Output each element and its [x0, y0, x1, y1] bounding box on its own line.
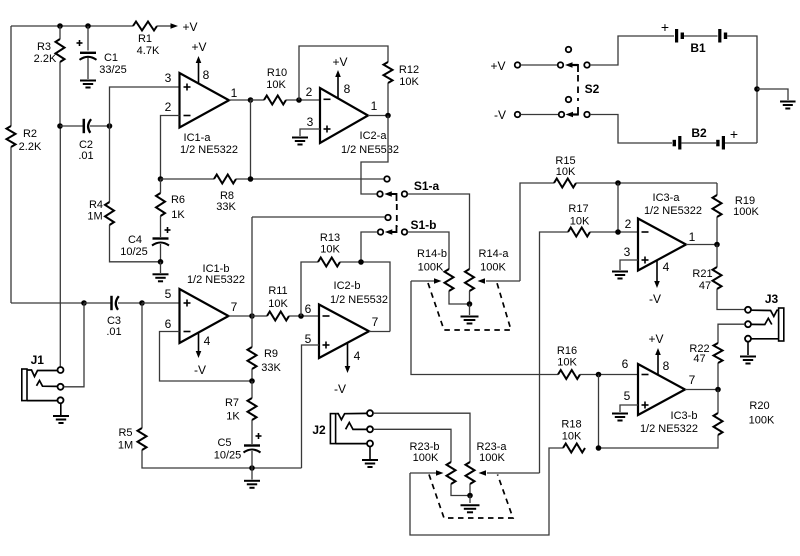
wire C5 ground stub	[251, 468, 253, 480]
potentiometer R23-a	[466, 462, 475, 484]
battery B2 cell 2	[716, 140, 719, 147]
junction C2 left	[57, 123, 63, 129]
svg-text:S1-a: S1-a	[414, 179, 440, 193]
battery B1 cell 2	[718, 29, 721, 43]
resistor R2	[7, 126, 16, 147]
resistor R22	[714, 343, 723, 363]
wire R3 top stub	[59, 26, 61, 39]
junction C5 ground node	[249, 465, 255, 471]
junction R17 out	[615, 229, 621, 235]
junction C3 right	[139, 300, 145, 306]
wire R19 top	[716, 183, 718, 195]
wire C2 right lead	[90, 125, 110, 127]
resistor R6	[156, 193, 165, 216]
wire R7 to C5	[251, 420, 253, 444]
wire -V to S2	[521, 114, 559, 116]
resistor R8	[214, 175, 236, 184]
wire out to R11	[252, 315, 267, 317]
jack J3 body	[779, 308, 784, 341]
svg-text:S1-b: S1-b	[410, 218, 436, 232]
svg-text:10K: 10K	[570, 216, 590, 228]
svg-text:2.2K: 2.2K	[34, 53, 57, 65]
switch S2-b blade	[571, 113, 579, 115]
wire IC1-a pin2 loop	[161, 116, 180, 180]
ground under C4	[153, 273, 169, 275]
resistor R7	[248, 398, 257, 420]
svg-text:+: +	[730, 126, 738, 142]
svg-text:10K: 10K	[399, 76, 419, 88]
terminal -V	[515, 112, 521, 118]
junction R15 out	[615, 180, 621, 186]
wire R14-a bottom	[469, 291, 471, 304]
op-amp IC1-b	[180, 289, 229, 343]
battery B1 cell 1	[675, 29, 678, 43]
resistor R13	[318, 258, 340, 267]
svg-text:1K: 1K	[226, 411, 240, 423]
junction R13 / S1-b	[358, 259, 364, 265]
switch S1-b blade	[390, 231, 397, 233]
wire +V to S2	[521, 64, 558, 66]
svg-text:3: 3	[165, 71, 172, 85]
svg-text:R18: R18	[561, 419, 581, 431]
svg-text:33K: 33K	[261, 362, 281, 374]
junction IC3-a out	[714, 242, 720, 248]
svg-text:1M: 1M	[118, 440, 133, 452]
jack J3 sleeve terminal	[745, 336, 751, 342]
junction R23 ground node	[467, 493, 473, 499]
ground under R23	[461, 504, 480, 506]
svg-text:R14-b: R14-b	[417, 248, 447, 260]
svg-text:C4: C4	[128, 234, 142, 246]
capacitor C5	[244, 444, 260, 446]
wire IC2-a pin3 stub	[300, 129, 320, 136]
wire R15 to pin2 node	[576, 182, 717, 184]
svg-text:+V: +V	[490, 59, 505, 73]
jack J2 ring contact	[346, 423, 367, 430]
svg-text:+V: +V	[191, 40, 206, 54]
svg-text:.01: .01	[78, 150, 93, 162]
resistor R9	[248, 347, 257, 369]
svg-text:-V: -V	[649, 292, 661, 306]
power +V arrow IC1-a	[198, 62, 200, 84]
svg-text:IC2-a: IC2-a	[360, 130, 388, 142]
wire C5 to ground rail	[251, 451, 253, 468]
svg-text:R10: R10	[267, 67, 287, 79]
wire R16 to pin6	[580, 374, 638, 376]
svg-text:100K: 100K	[749, 415, 775, 427]
wire R6 to C4	[160, 216, 162, 237]
svg-text:IC1-a: IC1-a	[184, 132, 212, 144]
wire IC2-b feedback loop	[301, 262, 318, 316]
wire IC2-b output	[369, 331, 390, 333]
svg-text:-V: -V	[494, 108, 506, 122]
ground at IC3-a pin3	[612, 271, 628, 273]
svg-text:3: 3	[624, 245, 631, 259]
wire S2-b to B2	[590, 115, 672, 144]
potentiometer R23-b	[447, 462, 456, 484]
battery B2 cell 1	[673, 140, 676, 147]
wire J1 tip riser	[59, 126, 61, 367]
switch S1-b throw contact	[385, 215, 391, 221]
svg-text:1: 1	[371, 99, 378, 113]
wire R9 node to R7	[251, 381, 253, 398]
svg-text:+V: +V	[182, 20, 197, 34]
jack J3 ring contact	[751, 318, 772, 324]
wire S1-a common to R14-a top	[408, 194, 470, 269]
svg-text:3: 3	[307, 115, 314, 129]
wire S1-b throw feed	[252, 216, 385, 218]
jack J3 tip terminal	[745, 307, 751, 313]
wire R14-b bottom	[449, 291, 470, 304]
op-amp IC2-b	[319, 305, 369, 359]
svg-text:5: 5	[165, 287, 172, 301]
switch S2-b pole contact	[559, 112, 565, 118]
svg-text:10K: 10K	[320, 244, 340, 256]
op-amp IC2-a	[320, 88, 368, 143]
resistor R20	[714, 413, 723, 435]
wiper R23-a	[487, 472, 540, 474]
svg-text:7: 7	[372, 315, 379, 329]
resistor R17	[568, 228, 590, 237]
wire IC1-a out to R8 node	[250, 100, 252, 179]
potentiometer R14-a	[465, 269, 474, 291]
wire R14-a wiper to R15	[520, 183, 554, 281]
wire IC3-a output	[686, 244, 717, 246]
resistor R18	[563, 444, 585, 453]
junction R16 out	[596, 372, 602, 378]
resistor R19	[713, 195, 722, 217]
ground under C5	[244, 480, 260, 482]
svg-text:IC3-b: IC3-b	[671, 410, 698, 422]
svg-text:R1: R1	[138, 33, 152, 45]
svg-text:IC3-a: IC3-a	[653, 192, 681, 204]
junction R6 top	[158, 176, 164, 182]
wire IC1-b pin6 loop	[160, 332, 253, 382]
junction top rail / R3	[57, 23, 63, 29]
wire R19 to output	[716, 217, 718, 245]
svg-text:J1: J1	[31, 353, 45, 367]
svg-text:+V: +V	[332, 55, 347, 69]
svg-text:S2: S2	[585, 82, 600, 96]
wire left rail upper	[10, 26, 12, 126]
svg-text:+: +	[661, 19, 669, 35]
dashed gang box R23	[429, 475, 513, 519]
svg-text:2: 2	[625, 217, 632, 231]
wire R1 to +V arrow	[157, 25, 171, 27]
svg-text:2.2K: 2.2K	[19, 141, 42, 153]
switch S2-b output contact	[584, 112, 590, 118]
jack J1 ring terminal	[58, 384, 64, 390]
svg-text:4: 4	[354, 349, 361, 363]
svg-text:7: 7	[231, 300, 238, 314]
svg-text:10K: 10K	[268, 298, 288, 310]
junction IC2-a out	[385, 113, 391, 119]
svg-text:1/2 NE5532: 1/2 NE5532	[341, 144, 399, 156]
svg-text:1: 1	[689, 230, 696, 244]
svg-text:10K: 10K	[562, 431, 582, 443]
svg-text:47: 47	[693, 353, 705, 365]
wire C3 row left	[11, 302, 83, 304]
junction IC1-b out	[249, 313, 255, 319]
switch S1-b output contact	[402, 229, 408, 235]
wire R8 row	[161, 178, 215, 180]
op-amp IC1-a	[180, 73, 230, 128]
wire R23-b bottom	[451, 484, 470, 496]
svg-text:-V: -V	[334, 382, 346, 396]
svg-text:4.7K: 4.7K	[137, 45, 160, 57]
terminal +V	[515, 62, 521, 68]
wire IC3-b pin5 stub	[620, 405, 638, 412]
svg-text:IC2-b: IC2-b	[334, 280, 361, 292]
svg-text:6: 6	[622, 357, 629, 371]
wiper R23-b	[410, 472, 436, 474]
svg-text:R5: R5	[118, 427, 132, 439]
wire IC3-b output	[685, 389, 718, 391]
ground under J3	[740, 356, 756, 358]
switch S2-b throw contact	[566, 97, 572, 103]
wire J2 ring to R23-b top	[373, 429, 451, 462]
jack J1 sleeve lead	[27, 400, 58, 402]
svg-text:R3: R3	[37, 41, 51, 53]
power -V arrow IC1-b	[198, 332, 200, 352]
wire B1 mid	[684, 35, 718, 37]
wire R14-b wiper to R16	[411, 281, 558, 375]
wire IC2-a out to S1-a pole	[361, 116, 388, 195]
ground under R14	[461, 316, 479, 318]
op-amp IC3-b	[638, 364, 685, 415]
junction battery ground	[754, 86, 760, 92]
svg-text:1/2 NE5532: 1/2 NE5532	[330, 294, 388, 306]
jack J1 tip terminal	[58, 367, 64, 373]
arrowhead +V top	[171, 23, 179, 29]
wire R11 to IC2-b pin6	[289, 315, 319, 317]
svg-text:1/2 NE5322: 1/2 NE5322	[187, 274, 245, 286]
switch S2-a blade	[570, 64, 578, 66]
svg-text:B1: B1	[690, 41, 706, 55]
svg-text:7: 7	[689, 373, 696, 387]
svg-text:R11: R11	[268, 285, 287, 297]
wire S1-b throw riser	[251, 217, 253, 316]
switch S1-a throw contact	[384, 176, 390, 182]
wire J3 ring to R22	[718, 324, 745, 343]
junction R14 ground node	[467, 301, 473, 307]
svg-text:R9: R9	[264, 348, 278, 360]
wire R23-a bottom	[469, 484, 471, 496]
wire left rail lower	[10, 147, 12, 303]
svg-text:100K: 100K	[733, 206, 759, 218]
junction IC2-b pin6 node	[298, 313, 304, 319]
gang dashed link S1	[396, 204, 398, 227]
wire IC1-a pin3 feed	[110, 87, 181, 202]
svg-text:1/2 NE5322: 1/2 NE5322	[644, 205, 702, 217]
resistor R5	[138, 428, 147, 450]
wire IC1-a output	[229, 99, 251, 101]
resistor R16	[558, 370, 580, 379]
wire C2 left lead	[60, 125, 83, 127]
wire IC2-a feedback top	[299, 46, 388, 100]
svg-text:10K: 10K	[556, 166, 576, 178]
wire J2 tip to R23-a top	[373, 413, 470, 462]
resistor R21	[713, 267, 722, 289]
svg-text:100K: 100K	[480, 262, 506, 274]
ground under C1	[80, 80, 96, 82]
wire IC1-b output	[229, 315, 253, 317]
svg-text:R17: R17	[568, 203, 588, 215]
op-amp IC3-a	[638, 219, 686, 271]
svg-text:.01: .01	[106, 326, 121, 338]
switch S1-a output contact	[402, 191, 408, 197]
junction C2 right	[107, 123, 113, 129]
svg-text:33/25: 33/25	[99, 64, 127, 76]
jack J3 tip contact	[751, 310, 778, 316]
resistor R1	[133, 22, 157, 31]
wire C3 right lead	[118, 302, 142, 304]
jack J2 body	[330, 414, 335, 444]
capacitor C3	[110, 296, 113, 310]
junction C3 left	[81, 300, 87, 306]
wire B2 to right rail	[725, 142, 757, 144]
ground battery	[780, 101, 796, 103]
wire J1 ring to C3 node	[64, 303, 84, 387]
junction IC2-a pin2 node	[296, 97, 302, 103]
svg-text:10K: 10K	[557, 357, 577, 369]
wire R17 to IC3-a pin2	[590, 231, 638, 233]
jack J1 sleeve terminal	[58, 397, 64, 403]
junction R9 bottom	[249, 378, 255, 384]
wire IC2-b pin5 feed	[302, 345, 320, 468]
capacitor C4	[153, 237, 169, 239]
wire out to R21	[716, 245, 718, 268]
wire pin2 riser	[617, 183, 619, 232]
svg-text:33K: 33K	[216, 201, 236, 213]
junction C4 bottom	[158, 259, 164, 265]
wire C3 node to R5	[141, 303, 143, 428]
wire pin6 node riser	[598, 375, 600, 449]
dashed gang box R14	[428, 283, 511, 330]
wire to battery ground	[757, 89, 788, 100]
wire S1-b common to R14-b top	[408, 232, 450, 269]
svg-text:6: 6	[165, 317, 172, 331]
svg-text:1M: 1M	[87, 211, 102, 223]
svg-text:R6: R6	[171, 194, 185, 206]
ground at IC2-a pin3	[292, 137, 308, 139]
capacitor C1	[80, 52, 96, 54]
svg-text:C5: C5	[217, 437, 231, 449]
jack J2 ring terminal	[367, 426, 373, 432]
svg-text:2: 2	[165, 100, 172, 114]
svg-text:R16: R16	[557, 345, 577, 357]
wire C3 left lead	[84, 302, 111, 304]
svg-text:B2: B2	[691, 126, 707, 140]
svg-text:1: 1	[231, 86, 238, 100]
potentiometer R14-b	[445, 269, 454, 291]
switch S1-b pole contact	[378, 229, 384, 235]
svg-text:10K: 10K	[266, 79, 286, 91]
svg-text:1/2 NE5322: 1/2 NE5322	[640, 423, 698, 435]
switch S2-a output contact	[584, 62, 590, 68]
junction R18 out	[596, 445, 602, 451]
svg-text:2: 2	[306, 85, 313, 99]
wire C3 to IC1-b pin5	[142, 302, 180, 304]
resistor R3	[56, 39, 65, 62]
switch S1-a blade	[389, 193, 397, 195]
wire B2 mid	[681, 142, 716, 144]
svg-text:10/25: 10/25	[120, 246, 148, 258]
wire R9 to pin6 node	[251, 369, 253, 381]
wire R20 to feedback row	[599, 435, 719, 448]
wire R23 ground stub	[469, 496, 471, 504]
power +V arrow IC2-a	[337, 76, 339, 98]
svg-text:R14-a: R14-a	[479, 248, 510, 260]
svg-text:100K: 100K	[479, 452, 505, 464]
wire J3 sleeve ground stub	[747, 342, 749, 355]
ground under J2	[362, 459, 378, 461]
svg-text:R13: R13	[320, 232, 340, 244]
wire R5 to ground rail	[142, 450, 302, 468]
wire C1 top stub	[87, 26, 89, 51]
wire R8 to S1-a throw	[236, 178, 384, 180]
wire R21 to J3 tip	[717, 289, 745, 310]
svg-text:C1: C1	[104, 52, 118, 64]
svg-text:J2: J2	[312, 423, 326, 437]
wire out to R20	[717, 390, 719, 414]
svg-text:10/25: 10/25	[214, 450, 242, 462]
svg-text:5: 5	[624, 389, 631, 403]
svg-text:4: 4	[204, 334, 211, 348]
svg-text:R12: R12	[399, 64, 419, 76]
wire R13 to output riser	[340, 262, 390, 332]
jack J2 sleeve lead	[336, 443, 367, 445]
jack J1 ring contact	[37, 381, 58, 387]
wire S2-a to B1	[590, 36, 674, 65]
svg-text:4: 4	[663, 260, 670, 274]
wire R3 bottom to C2 junction	[59, 62, 61, 126]
junction IC3-b out	[715, 387, 721, 393]
svg-text:R2: R2	[23, 128, 37, 140]
switch S2-a pole contact	[558, 62, 564, 68]
wire J1 sleeve ground stub	[60, 403, 62, 415]
jack J1 body	[22, 369, 27, 401]
junction R8 / pin1 riser	[248, 176, 254, 182]
svg-text:+V: +V	[648, 332, 663, 346]
wire R18 left	[410, 448, 563, 535]
wire J2 sleeve ground stub	[369, 447, 371, 459]
junction top rail / C1	[85, 23, 91, 29]
resistor R15	[554, 179, 576, 188]
resistor R10	[264, 96, 286, 105]
svg-text:8: 8	[344, 82, 351, 96]
gang dashed link S2	[577, 75, 579, 101]
wire R4 bottom to C4 node	[110, 225, 161, 262]
svg-text:R21: R21	[692, 268, 712, 280]
svg-text:47: 47	[699, 280, 711, 292]
svg-text:1K: 1K	[171, 209, 185, 221]
wire C4 ground stub	[160, 262, 162, 273]
wire R17 left to R23-a wiper riser	[540, 232, 569, 473]
jack J1 tip contact	[27, 370, 57, 377]
wire B1 to right rail	[727, 36, 757, 143]
wire output to R10	[251, 99, 265, 101]
resistor R12	[384, 62, 393, 83]
svg-text:R20: R20	[749, 400, 769, 412]
wire IC2-a output	[368, 115, 388, 117]
svg-text:1/2 NE5322: 1/2 NE5322	[180, 144, 238, 156]
jack J2 tip terminal	[367, 410, 373, 416]
wire R22 to output	[717, 363, 719, 389]
junction IC1-a out	[248, 97, 254, 103]
wire R12 to output	[387, 83, 389, 116]
jack J3 ring terminal	[745, 321, 751, 327]
